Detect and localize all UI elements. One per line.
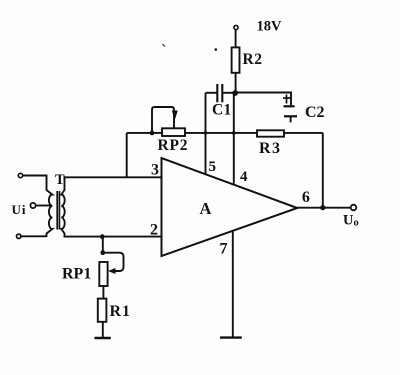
input terminal Ui (middle tap)	[30, 203, 35, 208]
stray mark	[163, 44, 166, 47]
svg-text:Ui: Ui	[12, 202, 27, 217]
wire secondary bottom to op-amp pin 2	[64, 236, 163, 238]
RP1 wiper loop wire with arrowhead	[103, 253, 124, 271]
resistor R3	[257, 130, 284, 136]
svg-text:6: 6	[302, 189, 310, 206]
svg-text:R2: R2	[243, 51, 263, 68]
capacitor C2 top plate	[284, 105, 295, 107]
feedback wire horizontal left of RP2	[127, 132, 162, 134]
ground (below R1)	[95, 337, 111, 339]
pin 6 output wire	[297, 207, 351, 209]
wire R2 bottom lead	[235, 73, 237, 93]
wire Ui terminal to primary tap	[36, 205, 52, 207]
pin 7 wire	[232, 231, 234, 338]
wire right vertical to output node	[322, 133, 324, 208]
node pin5 line crossing	[204, 131, 208, 135]
svg-text:RP1: RP1	[62, 266, 91, 283]
input terminal bottom	[17, 234, 21, 238]
pin 4 wire (R2 node down to top edge)	[233, 93, 235, 185]
wire C1 right lead	[222, 92, 234, 94]
capacitor C2 bottom plate	[284, 115, 297, 117]
svg-text:C2: C2	[305, 104, 325, 121]
pin 5 wire (C1 left lead down to top edge)	[205, 93, 207, 175]
node output junction	[320, 205, 325, 210]
wire junction to C2	[234, 93, 291, 106]
wire R2 top lead	[235, 30, 237, 48]
stray mark	[215, 48, 218, 51]
potentiometer RP2	[162, 128, 185, 136]
wire secondary top to op-amp pin 3	[64, 176, 163, 178]
ground (pin 7)	[220, 336, 242, 338]
node RP1 wiper tie point	[100, 250, 105, 255]
wire RP2 to R3	[185, 132, 257, 134]
svg-text:C1: C1	[212, 102, 232, 119]
op-amp A	[162, 158, 298, 256]
wire C1 left lead	[206, 92, 218, 94]
svg-text:3: 3	[151, 161, 159, 178]
transformer T secondary winding	[61, 176, 64, 237]
resistor R2	[232, 47, 240, 72]
node R2 bottom junction	[232, 90, 238, 96]
svg-text:4: 4	[240, 169, 248, 185]
svg-text:T: T	[55, 172, 65, 188]
svg-text:RP2: RP2	[158, 137, 189, 154]
transformer T primary winding	[47, 175, 53, 238]
output terminal Uo	[351, 205, 357, 211]
node pin4 line crossing	[232, 131, 236, 135]
C2 polarity plus	[283, 97, 290, 99]
svg-text:R3: R3	[259, 140, 282, 157]
svg-text:2: 2	[150, 221, 158, 238]
svg-text:7: 7	[220, 241, 228, 258]
input terminal top	[18, 173, 22, 177]
RP2 wiper loop wire with arrowhead	[152, 107, 174, 133]
wire bottom terminal to transformer primary	[21, 235, 47, 237]
resistor R1	[98, 299, 107, 322]
svg-text:A: A	[200, 199, 212, 218]
feedback wire vertical (to pin-3 wire)	[126, 133, 128, 177]
C2 bottom stub	[290, 116, 292, 122]
18V supply terminal	[234, 25, 238, 29]
wire RP1 to R1	[102, 286, 104, 299]
wire R1 to ground	[102, 322, 104, 338]
wire junction down to RP1 tap node	[102, 237, 104, 253]
transformer core	[56, 191, 58, 230]
wire top terminal to transformer primary	[23, 175, 47, 177]
capacitor C1 left plate	[216, 84, 218, 102]
node RP2 left junction	[150, 131, 155, 136]
svg-text:R1: R1	[110, 303, 132, 320]
node junction on pin-2 wire	[100, 234, 105, 239]
svg-text:18V: 18V	[257, 19, 283, 35]
capacitor C1 right plate	[221, 84, 223, 102]
wire R3 right	[284, 132, 323, 134]
potentiometer RP1	[99, 262, 107, 286]
svg-text:5: 5	[209, 159, 217, 175]
